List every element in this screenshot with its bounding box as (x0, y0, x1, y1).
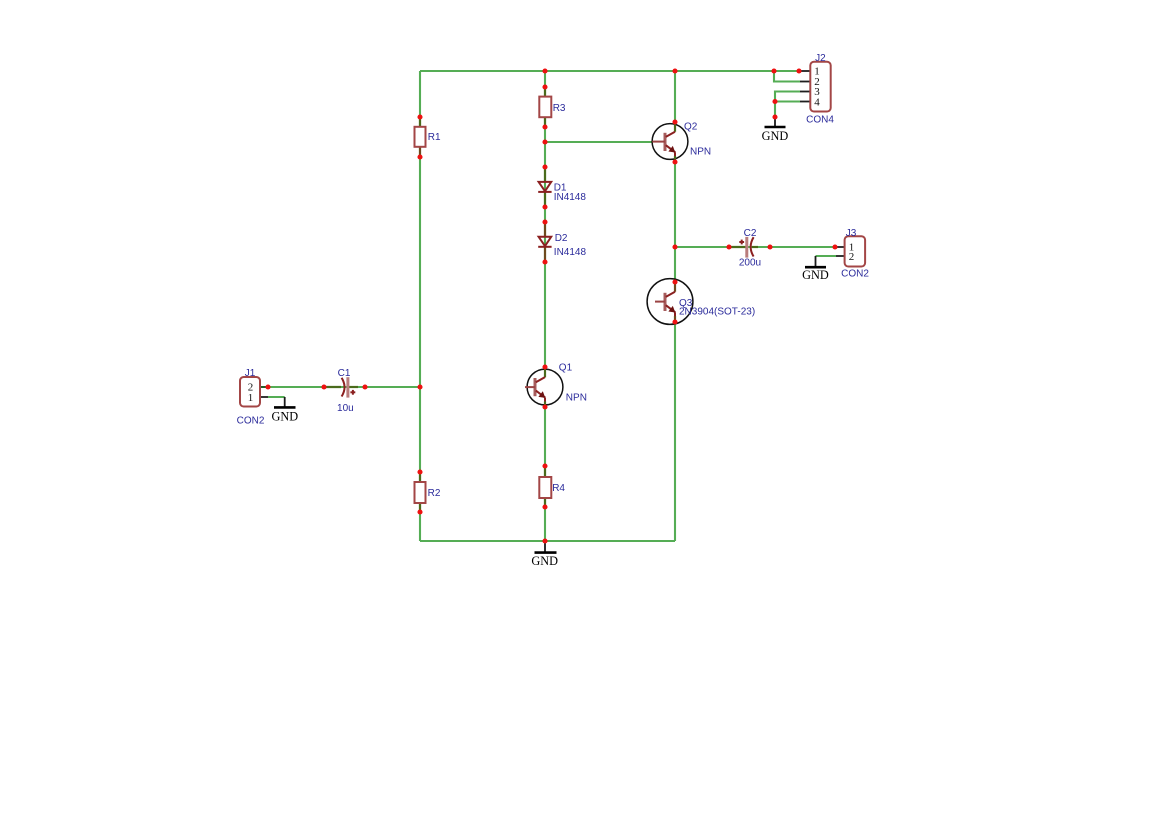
resistor R2 (415, 472, 441, 512)
svg-text:4: 4 (814, 96, 820, 108)
svg-text:IN4148: IN4148 (554, 192, 587, 203)
wire bottom rail (420, 540, 675, 542)
svg-text:D2: D2 (555, 233, 568, 244)
svg-text:200u: 200u (739, 258, 761, 269)
node J1 pin2 end (265, 384, 270, 389)
node Q1 collector (542, 364, 547, 369)
svg-text:CON2: CON2 (237, 416, 265, 427)
svg-text:NPN: NPN (690, 147, 711, 158)
wire J1 pin1 to ground (268, 396, 285, 398)
wire top rail (420, 70, 800, 72)
node Q2 emitter (672, 159, 677, 164)
transistor Q2 (652, 122, 711, 160)
resistor R4 (539, 466, 565, 507)
diode D2 (538, 222, 586, 262)
ground symbol (J3) (802, 256, 829, 282)
wire left rail (419, 71, 421, 541)
node R1 top pin (417, 114, 422, 119)
transistor Q1 (525, 363, 587, 405)
resistor R1 (415, 117, 442, 157)
ground symbol (J2) (762, 117, 789, 143)
junction dot J2 pin3/pin4 (772, 99, 777, 104)
resistor R3 (539, 87, 566, 127)
svg-text:C1: C1 (338, 368, 351, 379)
svg-text:GND: GND (802, 268, 829, 282)
node R1 bottom pin (417, 154, 422, 159)
node D1 anode (542, 164, 547, 169)
connector J2 (800, 53, 834, 125)
junction dot J2 pin1/pin2 (771, 68, 776, 73)
node D2 cathode (542, 259, 547, 264)
capacitor C2 (729, 228, 761, 269)
node J3 pin1 end (832, 244, 837, 249)
svg-text:R3: R3 (553, 103, 566, 114)
svg-text:J2: J2 (815, 53, 826, 64)
svg-text:2: 2 (849, 251, 855, 263)
svg-text:R2: R2 (428, 488, 441, 499)
node R4 top pin (542, 463, 547, 468)
svg-text:C2: C2 (744, 228, 757, 239)
capacitor C1 (324, 368, 358, 414)
node R2 bottom pin (417, 509, 422, 514)
node C1 left pin (321, 384, 326, 389)
wire right rail (674, 71, 676, 541)
connector J1 (237, 368, 268, 427)
svg-text:R4: R4 (552, 483, 565, 494)
connector J3 (836, 228, 869, 280)
svg-text:CON2: CON2 (841, 269, 869, 280)
svg-text:1: 1 (248, 392, 254, 404)
node D1 cathode (542, 204, 547, 209)
node R3 top pin (542, 84, 547, 89)
svg-text:NPN: NPN (566, 392, 587, 403)
svg-text:GND: GND (531, 554, 558, 568)
svg-text:R1: R1 (428, 132, 441, 143)
junction dot C2 row / right rail (672, 244, 677, 249)
node Q3 collector (672, 279, 677, 284)
junction dot top rail / R3 (542, 68, 547, 73)
wire J2 pin3 link (775, 92, 800, 102)
node C2 left pin (726, 244, 731, 249)
svg-text:J3: J3 (846, 228, 857, 239)
wire C2 row (right rail to J3) (675, 246, 836, 248)
wire J2 pin2 link (774, 70, 800, 82)
diode D1 (538, 167, 586, 207)
svg-text:Q1: Q1 (559, 363, 573, 374)
svg-text:GND: GND (271, 409, 298, 423)
svg-text:IN4148: IN4148 (554, 247, 587, 258)
junction dot bottom rail / GND (542, 538, 547, 543)
node J2 pin1 end (796, 68, 801, 73)
node R3 bottom pin (542, 124, 547, 129)
svg-text:CON4: CON4 (806, 114, 834, 125)
svg-text:2N3904(SOT-23): 2N3904(SOT-23) (679, 307, 755, 318)
node Q1 emitter (542, 404, 547, 409)
wire center rail (R3/D1/D2/Q1/R4 branch) (544, 71, 546, 541)
node R4 bottom pin (542, 504, 547, 509)
junction dot top rail / Q2 branch (672, 68, 677, 73)
node C1 right pin (362, 384, 367, 389)
node C2 right pin (767, 244, 772, 249)
node Q3 emitter (672, 319, 677, 324)
ground symbol (bottom rail) (531, 541, 558, 568)
wire J3 pin2 to ground (816, 255, 837, 257)
ground symbol (J1) (271, 397, 298, 423)
junction dot C1 row / left rail (417, 384, 422, 389)
svg-text:Q2: Q2 (684, 122, 698, 133)
node R2 top pin (417, 469, 422, 474)
wire J2 pin4 to ground (775, 102, 800, 118)
wire Q2 base (545, 141, 653, 143)
junction dot Q2 base wire (542, 139, 547, 144)
wire C1 row (J1 to left rail) (268, 386, 420, 388)
node Q2 collector (672, 119, 677, 124)
svg-text:10u: 10u (337, 403, 354, 414)
svg-text:J1: J1 (245, 368, 256, 379)
node J2 ground wire end (772, 114, 777, 119)
svg-text:GND: GND (762, 129, 789, 143)
transistor Q3 (647, 279, 755, 325)
node D2 anode (542, 219, 547, 224)
